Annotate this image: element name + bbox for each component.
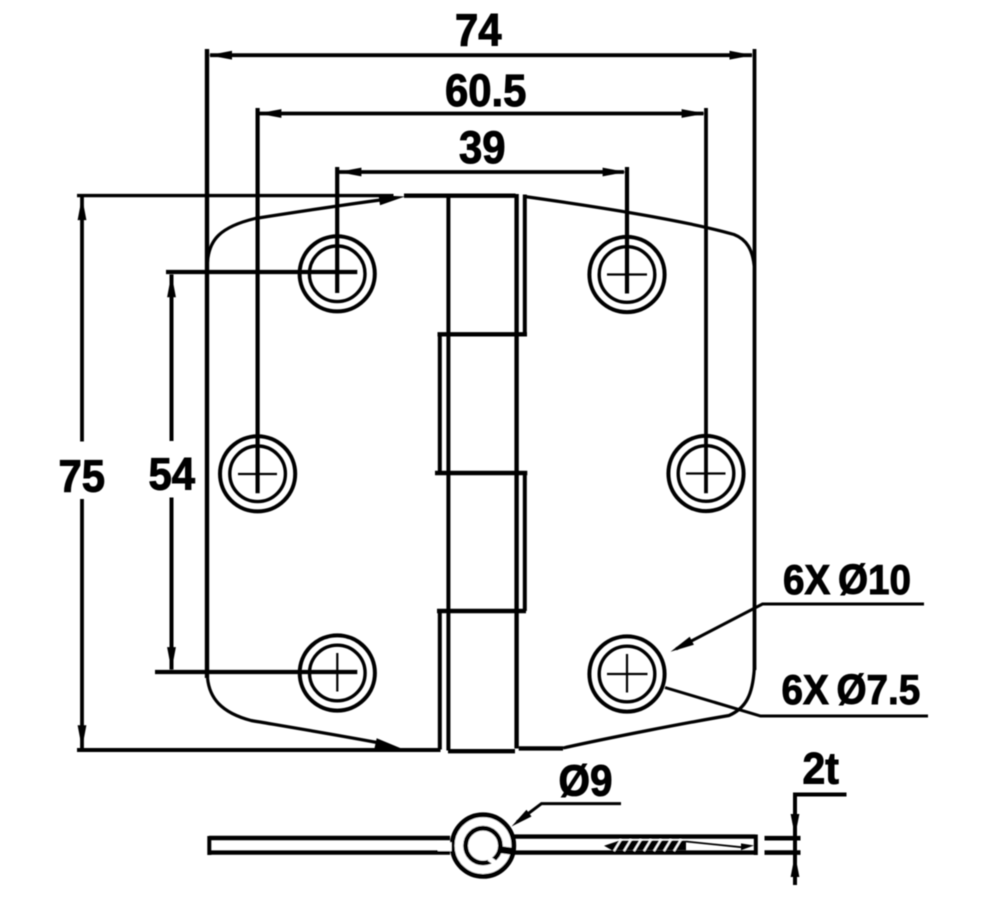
side view knuckle outer circle — [452, 815, 514, 877]
plate top-left curved edge — [208, 195, 406, 262]
dimension line 74 — [209, 51, 753, 60]
label D9 — [559, 756, 613, 805]
dimension line 39 — [338, 168, 626, 177]
svg-text:2t: 2t — [803, 744, 839, 794]
svg-text:54: 54 — [149, 449, 196, 500]
leader 6X D7.5 — [665, 688, 928, 717]
extension line 60.5 left — [256, 108, 260, 493]
dimension 2t arrows — [791, 814, 800, 877]
hole top-left — [300, 236, 375, 311]
knuckle divider 1 — [438, 332, 528, 336]
knuckle line left inner — [446, 194, 450, 751]
dimension line 54 lower — [167, 498, 176, 671]
svg-text:39: 39 — [459, 122, 506, 173]
plate right edge + 74 extension line — [753, 49, 757, 670]
side view left end cap — [207, 836, 211, 855]
knuckle line right outer mid — [523, 473, 527, 611]
extension line 75 top — [77, 194, 394, 197]
side view knuckle inner circle — [438, 828, 514, 864]
knuckle line right outer upper — [523, 195, 527, 335]
dimension text 39 — [459, 122, 506, 173]
knuckle divider 2 — [435, 471, 527, 475]
side view right leaf bottom edge — [510, 850, 756, 854]
dimension line 54 upper — [167, 274, 176, 441]
svg-text:75: 75 — [59, 451, 106, 502]
hole top-right — [589, 237, 664, 312]
dimension text 74 — [455, 5, 502, 56]
hole bottom-left — [300, 635, 375, 710]
plate bottom-right flat edge — [519, 746, 563, 750]
svg-text:60.5: 60.5 — [445, 65, 526, 116]
dimension text 75 — [59, 451, 106, 502]
leader 6X D10 — [671, 604, 925, 652]
dimension text 60.5 — [445, 65, 526, 116]
plate bottom flat edge + 75 extension line — [77, 748, 441, 752]
hole mid-right — [668, 436, 743, 511]
side view right end cap — [754, 835, 758, 856]
hole mid-left — [220, 436, 295, 511]
svg-text:6X Ø7.5: 6X Ø7.5 — [782, 665, 921, 713]
knuckle line right inner — [514, 194, 518, 749]
svg-text:74: 74 — [455, 5, 502, 56]
extension line 54 top — [166, 270, 357, 274]
leader D9 — [512, 804, 622, 827]
hole bottom-right — [589, 636, 664, 711]
plate left edge + 74 extension line — [205, 49, 209, 678]
extension line 39 left — [335, 167, 339, 293]
plate bottom-left curved edge — [208, 678, 403, 749]
extension line 54 bottom — [155, 670, 357, 674]
dimension line 60.5 — [258, 109, 705, 118]
label 6X D10 — [783, 555, 911, 603]
dimension 2t extension ticks — [765, 838, 801, 852]
side view section hatch wedge — [604, 840, 686, 851]
dimension line 75 upper — [78, 197, 87, 442]
plate bottom-right curved edge — [563, 669, 754, 748]
extension line 39 right — [625, 167, 629, 294]
knuckle line left outer lower — [438, 611, 442, 750]
plate top flat edge — [404, 193, 516, 197]
knuckle divider 3 — [437, 609, 526, 613]
dimension line 75 lower — [78, 499, 87, 749]
knuckle bottom edge — [448, 749, 515, 753]
side view right leaf top edge — [510, 834, 756, 838]
knuckle line left outer mid — [438, 335, 442, 474]
svg-text:6X Ø10: 6X Ø10 — [783, 555, 911, 603]
side view inner leaf edge line — [686, 842, 754, 851]
plate top-right curved edge — [525, 197, 755, 267]
svg-text:Ø9: Ø9 — [559, 756, 613, 805]
dimension text 2t — [803, 744, 839, 794]
label 6X D7.5 — [782, 665, 921, 713]
side view left leaf bottom edge — [209, 850, 450, 854]
side view left leaf top edge — [209, 836, 450, 840]
dimension 2t leader lines — [795, 795, 847, 886]
dimension text 54 — [149, 449, 196, 500]
extension line 60.5 right — [704, 108, 708, 493]
